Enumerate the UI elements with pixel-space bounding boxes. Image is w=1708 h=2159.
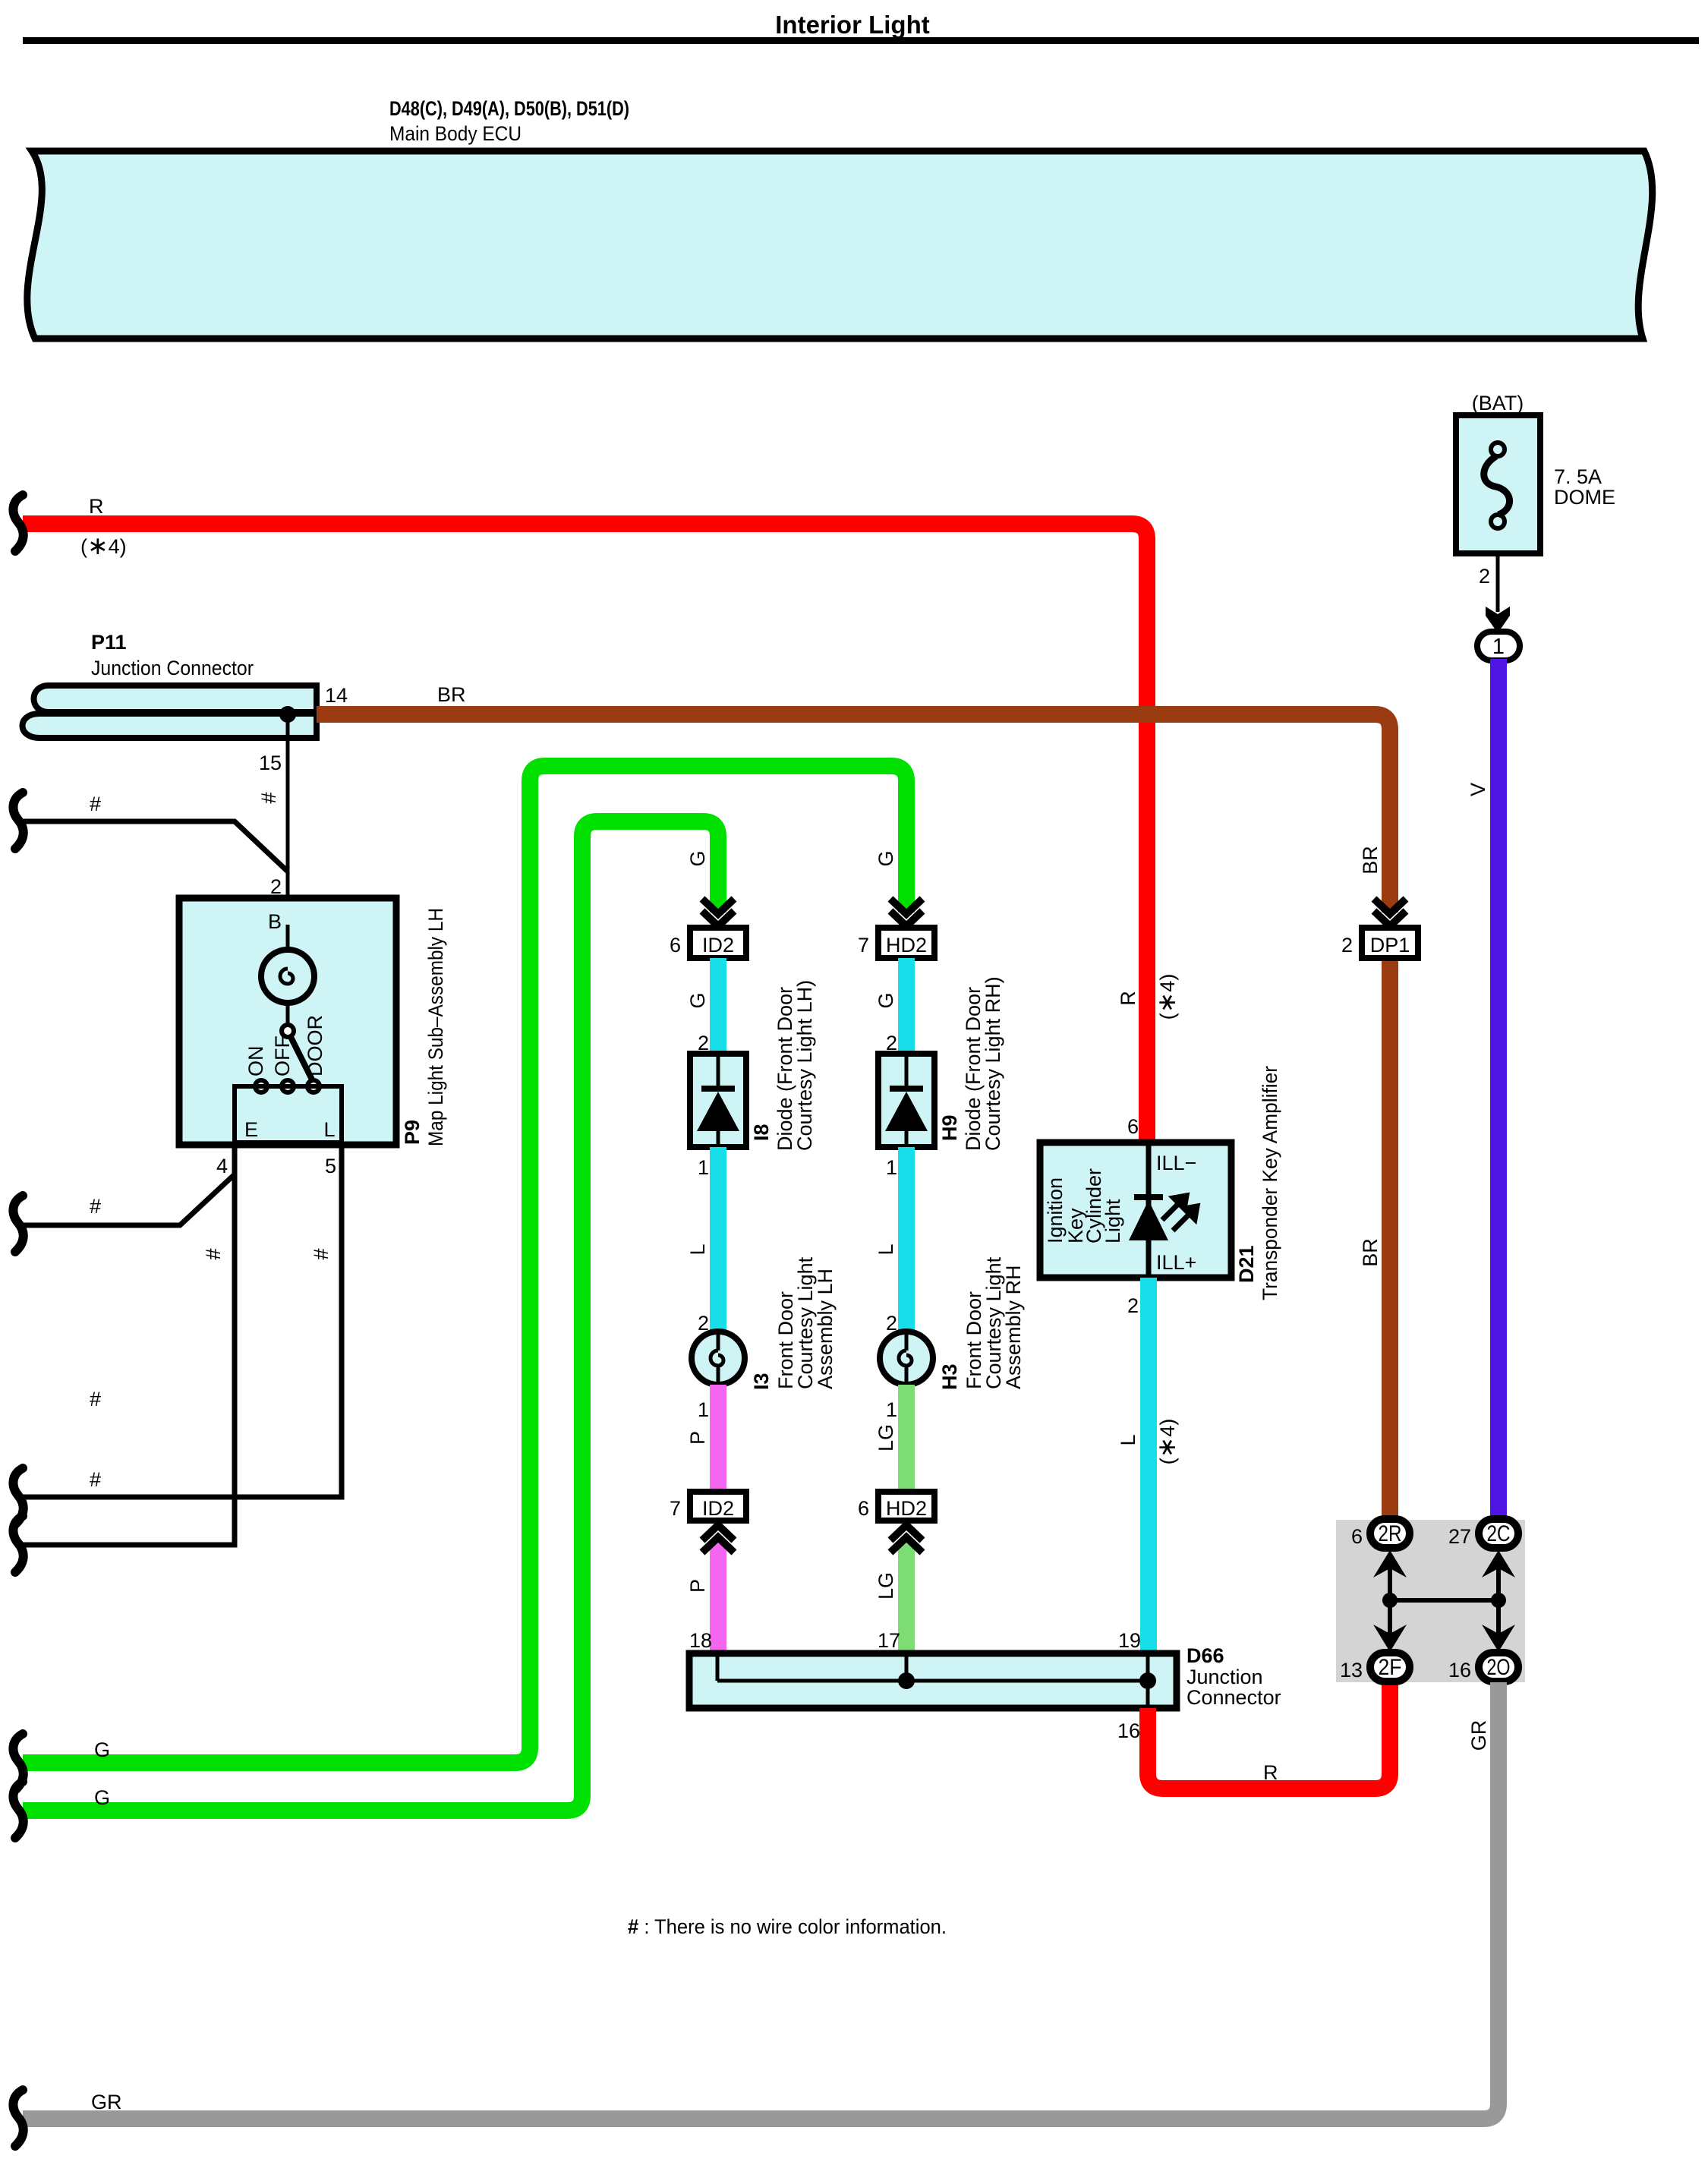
svg-text:4: 4 <box>216 1155 228 1177</box>
svg-text:G: G <box>94 1786 110 1809</box>
svg-text:G: G <box>874 850 897 866</box>
svg-text:ID2: ID2 <box>702 1497 734 1520</box>
internal wiring gray block <box>1390 1567 1498 1634</box>
svg-text:GR: GR <box>91 2091 122 2113</box>
svg-text:ILL−: ILL− <box>1156 1152 1196 1174</box>
fuse 7.5A DOME <box>1456 415 1615 553</box>
wire G green outer <box>23 766 906 1763</box>
svg-text:ID2: ID2 <box>702 934 734 957</box>
svg-text:Assembly LH: Assembly LH <box>814 1269 837 1389</box>
connector oval 1 <box>1477 632 1520 660</box>
chevron arrow ID2 top <box>702 899 734 926</box>
breaks left <box>13 1196 23 1252</box>
wire # to pin 2 <box>23 821 288 871</box>
svg-text:16: 16 <box>1117 1719 1140 1742</box>
svg-text:2O: 2O <box>1487 1655 1511 1680</box>
svg-text:G: G <box>686 992 709 1008</box>
svg-text:(∗4): (∗4) <box>1152 974 1180 1020</box>
svg-text:#: # <box>90 1195 101 1218</box>
svg-text:DP1: DP1 <box>1370 934 1410 957</box>
svg-text:# : There is no wire color inf: # : There is no wire color information. <box>628 1915 947 1938</box>
svg-text:BR: BR <box>1359 1238 1382 1267</box>
wire R red bottom D66 to 2F <box>1148 1682 1390 1789</box>
wire fuse to connector 1 <box>1496 553 1500 612</box>
svg-text:6: 6 <box>670 934 681 957</box>
svg-text:I3: I3 <box>750 1373 773 1390</box>
gray relay block <box>1336 1520 1525 1682</box>
svg-text:B: B <box>268 910 282 933</box>
bulb I3 <box>692 1332 745 1385</box>
svg-text:Courtesy Light LH): Courtesy Light LH) <box>793 980 816 1151</box>
wire BR brown: DP1 to 2R <box>1382 957 1398 1519</box>
svg-text:LG: LG <box>874 1424 897 1451</box>
wire E pin4 down <box>23 1145 235 1545</box>
svg-text:BR: BR <box>437 683 466 706</box>
svg-text:(∗4): (∗4) <box>80 531 127 559</box>
svg-text:GR: GR <box>1467 1720 1490 1751</box>
wire L cyan diode to bulb I3 <box>710 1147 726 1333</box>
wire P pink bulb to ID2 bottom <box>710 1385 726 1493</box>
switch pivot <box>282 1025 294 1037</box>
svg-text:14: 14 <box>325 684 348 707</box>
inner box E L <box>235 1086 342 1143</box>
svg-text:6: 6 <box>1351 1525 1363 1548</box>
svg-text:#: # <box>257 792 280 803</box>
svg-text:L: L <box>323 1118 335 1141</box>
svg-text:#: # <box>310 1248 332 1259</box>
bulb H3 <box>880 1332 933 1385</box>
svg-text:1: 1 <box>886 1398 897 1421</box>
arrow down <box>1486 607 1510 633</box>
svg-text:OFF: OFF <box>271 1035 294 1076</box>
svg-text:LG: LG <box>874 1572 897 1600</box>
svg-text:L: L <box>874 1243 897 1255</box>
connector oval 2C <box>1479 1519 1518 1548</box>
svg-text:#: # <box>202 1248 225 1259</box>
title underline <box>23 37 1699 44</box>
svg-text:HD2: HD2 <box>886 934 927 957</box>
chevron arrow DP1 <box>1374 899 1406 926</box>
svg-text:2C: 2C <box>1487 1521 1511 1546</box>
svg-text:18: 18 <box>689 1629 712 1652</box>
svg-text:HD2: HD2 <box>886 1497 927 1520</box>
svg-text:Assembly RH: Assembly RH <box>1002 1265 1025 1389</box>
svg-text:1: 1 <box>886 1156 897 1179</box>
svg-text:P: P <box>686 1579 709 1593</box>
bulb map light <box>261 925 314 1028</box>
svg-text:D66: D66 <box>1186 1644 1224 1667</box>
switch contacts ON OFF DOOR <box>255 1080 267 1092</box>
svg-text:(BAT): (BAT) <box>1472 392 1524 414</box>
svg-text:2R: 2R <box>1379 1521 1402 1546</box>
svg-text:5: 5 <box>325 1155 336 1177</box>
svg-text:2: 2 <box>698 1312 709 1335</box>
wire G green inner <box>23 821 718 1811</box>
svg-text:(∗4): (∗4) <box>1152 1419 1180 1465</box>
svg-text:#: # <box>90 1388 101 1410</box>
svg-text:2F: 2F <box>1379 1655 1402 1680</box>
svg-text:1: 1 <box>1492 635 1505 659</box>
connector oval 2O <box>1479 1653 1518 1681</box>
svg-text:2: 2 <box>1127 1294 1139 1317</box>
wire LG bulb to HD2 bottom <box>898 1385 915 1493</box>
svg-text:Connector: Connector <box>1186 1686 1281 1709</box>
svg-text:27: 27 <box>1448 1525 1471 1548</box>
wire L cyan ID2 to diode I8 <box>710 958 726 1054</box>
svg-text:6: 6 <box>1127 1115 1139 1138</box>
svg-text:Map Light Sub–Assembly LH: Map Light Sub–Assembly LH <box>424 908 447 1146</box>
wire L pin5 down <box>23 1145 342 1497</box>
svg-text:Junction: Junction <box>1186 1666 1263 1688</box>
svg-text:6: 6 <box>858 1497 869 1520</box>
wire 15 P11 down to map light <box>286 714 290 898</box>
connector ID2 bottom <box>690 1492 746 1521</box>
svg-text:17: 17 <box>878 1629 900 1652</box>
wire L cyan D21 to D66 <box>1140 1278 1157 1653</box>
Main Body ECU band <box>27 151 1653 339</box>
svg-text:G: G <box>686 850 709 866</box>
svg-text:P9: P9 <box>401 1120 424 1145</box>
svg-text:7: 7 <box>670 1497 681 1520</box>
arrows down to 2F 2O <box>1373 1625 1407 1652</box>
svg-text:2: 2 <box>886 1312 897 1335</box>
svg-text:L: L <box>1117 1434 1139 1445</box>
wire L cyan diode to bulb H3 <box>898 1147 915 1333</box>
breaks G <box>13 1734 23 1790</box>
wire L cyan HD2 to diode H9 <box>898 958 915 1054</box>
svg-text:Main Body ECU: Main Body ECU <box>389 122 522 145</box>
svg-text:BR: BR <box>1359 846 1382 875</box>
wire P pink to D66 <box>710 1540 726 1653</box>
wire GR gray 2O down and left <box>23 1682 1498 2119</box>
break # <box>13 793 23 849</box>
svg-text:DOME: DOME <box>1554 486 1615 509</box>
svg-text:1: 1 <box>698 1156 709 1179</box>
wire diagonal to break <box>23 1174 235 1225</box>
diode I8 <box>690 1054 746 1147</box>
svg-text:1: 1 <box>698 1398 709 1421</box>
svg-text:7. 5A: 7. 5A <box>1554 465 1602 488</box>
svg-text:19: 19 <box>1118 1629 1141 1652</box>
svg-text:DOOR: DOOR <box>304 1015 326 1076</box>
svg-text:H3: H3 <box>938 1363 961 1390</box>
break red left <box>13 495 23 551</box>
svg-text:H9: H9 <box>938 1114 961 1141</box>
svg-text:Interior Light: Interior Light <box>775 11 929 39</box>
svg-text:15: 15 <box>259 752 282 774</box>
connector DP1 <box>1362 928 1418 958</box>
switch lever <box>291 1037 313 1081</box>
wire BR brown: P11 to DP1 <box>317 714 1390 912</box>
junction dot P11 <box>279 706 296 723</box>
svg-text:Junction Connector: Junction Connector <box>91 657 254 679</box>
svg-text:L: L <box>686 1243 709 1255</box>
svg-text:2: 2 <box>1341 934 1353 957</box>
connector ID2 top <box>690 928 746 958</box>
wire V violet vertical <box>1490 659 1507 1521</box>
svg-text:G: G <box>874 992 897 1008</box>
svg-text:R: R <box>89 495 104 518</box>
chevron arrow HD2 bottom (up) <box>890 1525 922 1552</box>
connector HD2 bottom <box>878 1492 934 1521</box>
break GR <box>13 2090 23 2146</box>
svg-text:R: R <box>1263 1761 1278 1784</box>
svg-text:D21: D21 <box>1235 1245 1258 1283</box>
svg-text:Transponder Key Amplifier: Transponder Key Amplifier <box>1259 1066 1281 1300</box>
svg-text:E: E <box>244 1118 258 1141</box>
wire R red top <box>23 524 1147 1142</box>
svg-text:7: 7 <box>858 934 869 957</box>
svg-text:2: 2 <box>1479 565 1490 588</box>
diode H9 <box>878 1054 934 1147</box>
P11 lower bar <box>23 714 317 738</box>
svg-text:Courtesy Light RH): Courtesy Light RH) <box>982 976 1004 1151</box>
chevron arrow ID2 bottom (up) <box>702 1525 734 1552</box>
svg-text:P11: P11 <box>91 631 127 654</box>
svg-text:#: # <box>90 793 101 815</box>
svg-text:ILL+: ILL+ <box>1156 1251 1196 1274</box>
connector HD2 top <box>878 928 934 958</box>
P9 map light box <box>179 898 396 1145</box>
svg-text:Light: Light <box>1101 1199 1124 1243</box>
svg-text:Ignition: Ignition <box>1044 1177 1067 1243</box>
svg-text:R: R <box>1117 991 1139 1006</box>
svg-text:D48(C), D49(A), D50(B), D51(D): D48(C), D49(A), D50(B), D51(D) <box>389 97 629 120</box>
svg-text:V: V <box>1467 783 1489 796</box>
arrows up to 2R 2C <box>1373 1550 1407 1577</box>
svg-text:16: 16 <box>1448 1659 1471 1681</box>
svg-text:I8: I8 <box>750 1124 773 1141</box>
svg-text:ON: ON <box>244 1046 267 1077</box>
connector oval 2R <box>1370 1519 1410 1548</box>
svg-text:13: 13 <box>1340 1659 1363 1681</box>
chevron arrow HD2 top <box>890 899 922 926</box>
svg-text:#: # <box>90 1468 101 1491</box>
svg-text:G: G <box>94 1738 110 1761</box>
P11 junction connector box <box>34 686 317 712</box>
svg-text:P: P <box>686 1431 709 1445</box>
connector oval 2F <box>1370 1653 1410 1681</box>
D66 junction connector <box>689 1653 1177 1708</box>
wire LG to D66 <box>898 1540 915 1653</box>
